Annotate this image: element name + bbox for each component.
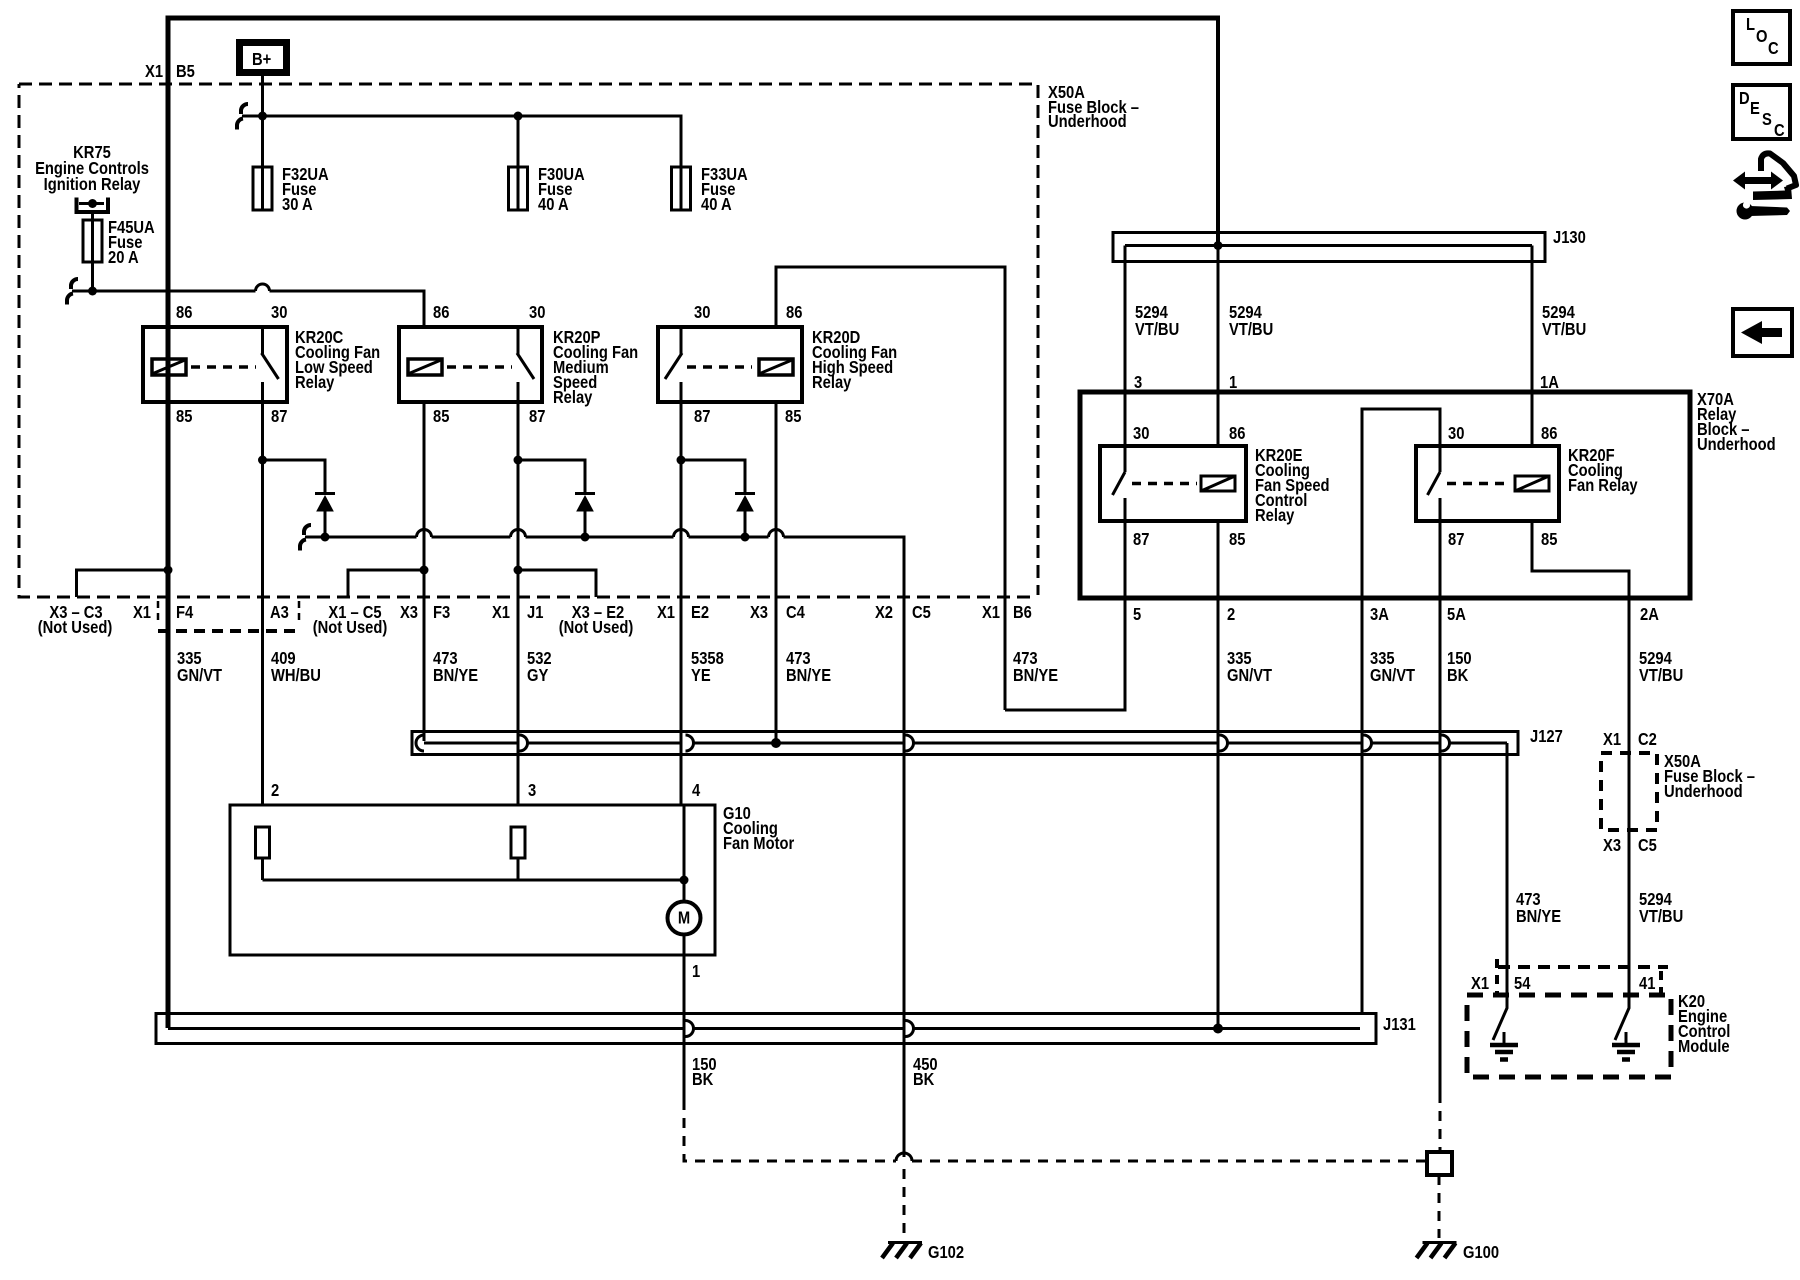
svg-text:J131: J131 [1383, 1015, 1416, 1035]
wire 5294 VT/BU pin 1A [1532, 246, 1586, 447]
svg-text:30: 30 [1448, 424, 1464, 444]
svg-text:5A: 5A [1447, 605, 1466, 625]
module K20 internal ground 54 [1490, 995, 1518, 1060]
motor G10 [230, 781, 795, 1100]
svg-text:1: 1 [1229, 373, 1237, 393]
relay KR20P [399, 303, 638, 427]
svg-text:86: 86 [786, 303, 802, 323]
svg-text:L: L [1746, 15, 1755, 35]
svg-text:X1: X1 [657, 603, 675, 623]
svg-text:30: 30 [529, 303, 545, 323]
svg-text:S: S [1762, 110, 1772, 130]
svg-text:Underhood: Underhood [1048, 112, 1127, 132]
svg-text:86: 86 [1541, 424, 1557, 444]
wire label 5358 YE [691, 649, 724, 686]
svg-text:VT/BU: VT/BU [1639, 907, 1683, 927]
splice square S [1427, 1093, 1452, 1238]
wire KR20D-86 jog to X1-B6 [776, 267, 1005, 597]
svg-text:F3: F3 [433, 603, 450, 623]
svg-text:WH/BU: WH/BU [271, 666, 321, 686]
wire label 473 BN/YE B6 [1013, 649, 1058, 686]
relay KR20F [1416, 424, 1638, 550]
wire top feed bus [166, 16, 1221, 246]
svg-text:3: 3 [528, 781, 536, 801]
fuse F32UA [253, 165, 329, 215]
svg-text:87: 87 [694, 407, 710, 427]
diode D3 KR20D branch [677, 456, 756, 538]
svg-text:E2: E2 [691, 603, 709, 623]
wire B+ down to F32UA [261, 76, 264, 167]
svg-text:2: 2 [1227, 605, 1235, 625]
svg-text:GN/VT: GN/VT [177, 666, 222, 686]
svg-text:X1: X1 [492, 603, 510, 623]
wire label 532 GY [527, 649, 552, 686]
module K20 connector face [1471, 959, 1668, 993]
svg-text:Fan Relay: Fan Relay [1568, 476, 1638, 496]
svg-text:G100: G100 [1463, 1243, 1499, 1263]
fuse F45UA [83, 218, 155, 268]
svg-text:D: D [1739, 89, 1750, 109]
svg-text:Underhood: Underhood [1697, 435, 1776, 455]
svg-text:(Not Used): (Not Used) [313, 618, 388, 638]
svg-text:X1: X1 [1471, 974, 1489, 994]
svg-text:3: 3 [1134, 373, 1142, 393]
connector X1 bracket under F4-A3 [158, 601, 299, 631]
relay KR20D [658, 303, 897, 427]
svg-text:85: 85 [785, 407, 801, 427]
wire KR20D-87 down through X1-E2 [680, 402, 683, 805]
junction J130 [1113, 228, 1586, 262]
diode D1 KR20C branch [258, 456, 335, 538]
wire stub to X3-C3 [77, 566, 173, 598]
icon LOC [1733, 11, 1790, 64]
wire fuse feed y=116 [237, 104, 681, 167]
svg-text:30: 30 [1133, 424, 1149, 444]
wire label 473 BN/YE C4 [786, 649, 831, 686]
wire X2-C5 down through junctions [903, 597, 906, 1157]
svg-text:M: M [678, 908, 690, 928]
wire KR20D-85 down through X3-C4 [775, 402, 778, 739]
wire pin 2A down 5294 VT/BU [1629, 598, 1683, 993]
wire KR20P-85 down through X3-F3 [423, 402, 426, 741]
fuse block X50A label [1048, 83, 1139, 132]
svg-text:C4: C4 [786, 603, 806, 623]
wire K20 pin 41 5294 VT/BU [1639, 890, 1683, 927]
svg-text:1A: 1A [1540, 373, 1559, 393]
relay KR20E [1100, 424, 1330, 550]
svg-text:BN/YE: BN/YE [433, 666, 478, 686]
node X3 C4 / X2 C5 / X1 B6 labels [750, 603, 1032, 623]
svg-text:86: 86 [176, 303, 192, 323]
ground G100 [1417, 1243, 1500, 1263]
svg-text:86: 86 [433, 303, 449, 323]
svg-text:O: O [1756, 27, 1768, 47]
svg-text:VT/BU: VT/BU [1229, 320, 1273, 340]
icon DESC [1733, 85, 1790, 140]
svg-text:F4: F4 [176, 603, 194, 623]
junction J131 [156, 1014, 1416, 1044]
svg-text:85: 85 [433, 407, 449, 427]
fuse F30UA [509, 165, 585, 215]
svg-text:B+: B+ [252, 50, 271, 70]
svg-text:J130: J130 [1553, 228, 1586, 248]
svg-text:Underhood: Underhood [1664, 782, 1743, 802]
svg-text:Relay: Relay [553, 388, 593, 408]
wire 150 BK to G100 [684, 1055, 1427, 1161]
svg-text:2A: 2A [1640, 605, 1659, 625]
wire pin 5A down 150 BK [1440, 521, 1472, 1093]
svg-text:5: 5 [1133, 605, 1141, 625]
wire KR20E-85 pin 2 down [1218, 521, 1272, 1028]
relay KR75 contact symbol [75, 198, 111, 222]
svg-text:J1: J1 [527, 603, 543, 623]
svg-text:(Not Used): (Not Used) [38, 618, 113, 638]
ground G102 [882, 1243, 964, 1263]
svg-text:Ignition Relay: Ignition Relay [44, 175, 141, 195]
svg-text:Module: Module [1678, 1037, 1730, 1057]
svg-text:85: 85 [1541, 530, 1557, 550]
svg-text:(Not Used): (Not Used) [559, 618, 634, 638]
svg-text:86: 86 [1229, 424, 1245, 444]
relay KR20C [143, 303, 380, 427]
fuse F33UA [672, 165, 748, 215]
svg-text:C5: C5 [912, 603, 931, 623]
wire diode bus to X2-C5 [300, 525, 904, 597]
icon service info arrows and wrench [1733, 153, 1796, 219]
svg-text:54: 54 [1514, 974, 1531, 994]
wire pin 3A down [1362, 598, 1415, 1013]
svg-text:X3: X3 [400, 603, 418, 623]
wire stub to X3-E2 [514, 566, 597, 598]
svg-text:Relay: Relay [295, 373, 335, 393]
svg-text:BN/YE: BN/YE [786, 666, 831, 686]
svg-text:VT/BU: VT/BU [1542, 320, 1586, 340]
wire KR75 output to KR20P-86 [67, 262, 424, 327]
svg-text:87: 87 [529, 407, 545, 427]
svg-text:GY: GY [527, 666, 548, 686]
svg-text:4: 4 [692, 781, 701, 801]
wire motor pin 4 from E2 [680, 752, 683, 805]
svg-text:X1: X1 [145, 62, 163, 82]
svg-text:BK: BK [1447, 666, 1468, 686]
node A3 / X1-C5 labels [270, 603, 418, 638]
svg-text:20 A: 20 A [108, 248, 139, 268]
svg-text:2: 2 [271, 781, 279, 801]
svg-text:X1: X1 [133, 603, 151, 623]
node X1 B5 [145, 62, 195, 82]
svg-text:C: C [1774, 121, 1785, 141]
wire stub to X1-C5 [348, 566, 429, 598]
svg-text:40 A: 40 A [701, 195, 732, 215]
wire F30UA drop [517, 116, 520, 167]
svg-text:1: 1 [692, 962, 700, 982]
fuse block X50A dashed box [19, 84, 1038, 597]
svg-text:87: 87 [271, 407, 287, 427]
node F3 / X1 J1 labels [433, 603, 543, 623]
svg-text:YE: YE [691, 666, 711, 686]
svg-text:BN/YE: BN/YE [1516, 907, 1561, 927]
svg-text:X1: X1 [982, 603, 1000, 623]
svg-text:X1: X1 [1603, 730, 1621, 750]
relay KR75 label [35, 143, 149, 195]
connector X1-C2 X3-C5 pass-through [1601, 730, 1755, 856]
wire KR20F-30 jog from 3A [1362, 409, 1440, 598]
wire KR20P-87 down through X1-J1 [517, 402, 520, 805]
svg-text:30: 30 [271, 303, 287, 323]
junction J127 [412, 727, 1563, 755]
svg-text:G102: G102 [928, 1243, 964, 1263]
svg-text:X3: X3 [750, 603, 768, 623]
relay block X70A box [1080, 390, 1776, 598]
wire label 473 BN/YE F3 [433, 649, 478, 686]
wire KR20F-85 jog to 2A [1532, 521, 1629, 598]
svg-text:VT/BU: VT/BU [1639, 666, 1683, 686]
svg-text:30: 30 [694, 303, 710, 323]
wire 450 BK to G102 [904, 1044, 938, 1238]
wire 5294 VT/BU pin 1 [1218, 246, 1273, 447]
svg-text:C2: C2 [1638, 730, 1657, 750]
svg-text:3A: 3A [1370, 605, 1389, 625]
svg-text:85: 85 [1229, 530, 1245, 550]
svg-text:85: 85 [176, 407, 192, 427]
svg-text:B6: B6 [1013, 603, 1032, 623]
svg-text:B5: B5 [176, 62, 195, 82]
svg-text:BK: BK [692, 1070, 713, 1090]
svg-text:87: 87 [1448, 530, 1464, 550]
svg-text:40 A: 40 A [538, 195, 569, 215]
svg-text:C: C [1768, 39, 1779, 59]
wire label 409 WH/BU [271, 649, 321, 686]
svg-text:BK: BK [913, 1070, 934, 1090]
svg-text:A3: A3 [270, 603, 289, 623]
svg-text:X3: X3 [1603, 836, 1621, 856]
svg-text:C5: C5 [1638, 836, 1657, 856]
module K20 internal ground 41 [1612, 995, 1640, 1060]
diode D2 KR20P branch [514, 456, 596, 538]
svg-text:87: 87 [1133, 530, 1149, 550]
wire KR20E-87 pin 5 to X1-B6 [1005, 521, 1141, 710]
node X3-E2 labels [559, 603, 709, 638]
svg-text:J127: J127 [1530, 727, 1563, 747]
wire 5294 VT/BU pin 3 [1125, 246, 1179, 447]
svg-text:VT/BU: VT/BU [1135, 320, 1179, 340]
wire KR20C-87 down through A3 [261, 402, 264, 805]
svg-text:X2: X2 [875, 603, 893, 623]
svg-text:E: E [1750, 99, 1760, 119]
node X3-C3 labels [38, 603, 194, 638]
svg-text:GN/VT: GN/VT [1227, 666, 1272, 686]
wire main left vertical X1-B5 feed [166, 16, 171, 1029]
svg-text:GN/VT: GN/VT [1370, 666, 1415, 686]
icon back arrow [1733, 309, 1792, 356]
battery B+ terminal [240, 43, 287, 73]
svg-text:Relay: Relay [812, 373, 852, 393]
svg-text:Fan Motor: Fan Motor [723, 834, 795, 854]
wire label 335 GN/VT F4 [177, 649, 222, 686]
svg-text:BN/YE: BN/YE [1013, 666, 1058, 686]
module K20 box [1467, 992, 1730, 1077]
wire K20 pin 54 473 BN/YE [1507, 743, 1561, 1008]
svg-text:Relay: Relay [1255, 506, 1295, 526]
svg-text:41: 41 [1639, 974, 1655, 994]
svg-text:30 A: 30 A [282, 195, 313, 215]
